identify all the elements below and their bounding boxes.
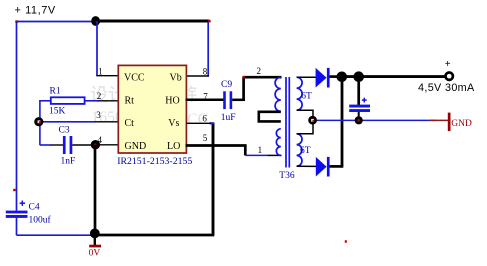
- svg-text:4,5V 30mA: 4,5V 30mA: [418, 82, 475, 94]
- svg-text:Ct: Ct: [125, 118, 135, 129]
- svg-text:5: 5: [203, 133, 208, 143]
- wire riser to pin6: [212, 123, 215, 236]
- svg-text:GND: GND: [451, 119, 472, 129]
- svg-text:钅: 钅: [187, 85, 205, 105]
- label 1uF: [221, 113, 236, 123]
- node cap junction: [353, 71, 364, 82]
- wire pin3 stub black: [94, 121, 119, 123]
- svg-text:2: 2: [257, 66, 262, 76]
- wire supply horizontal blue: [17, 21, 97, 23]
- label IC part number IR2151-2153-2155: [117, 156, 192, 167]
- wire cap drop: [357, 77, 360, 105]
- resistor R1 leads: [40, 100, 51, 145]
- gnd symbol bar: [448, 113, 472, 132]
- label 100uf: [29, 214, 52, 225]
- label T36: [279, 171, 295, 181]
- wire secondary bottom to diode: [297, 165, 317, 167]
- node D junction: [337, 72, 348, 83]
- wire pin7 HO thick: [186, 99, 224, 102]
- IC U1 IR2151 body: [118, 65, 186, 153]
- svg-text:LO: LO: [167, 141, 180, 152]
- svg-text:0V: 0V: [89, 248, 101, 258]
- wire left rail below C4: [16, 218, 18, 235]
- svg-text:100uf: 100uf: [29, 214, 52, 225]
- capacitor C4 plates: [6, 211, 28, 218]
- svg-text:C4: C4: [29, 203, 40, 213]
- wire bottom rail thick: [95, 234, 215, 237]
- stray red speck bottom right: [345, 240, 347, 243]
- svg-text:+ 11,7V: + 11,7V: [15, 5, 56, 17]
- svg-text:1: 1: [258, 145, 263, 155]
- diode D2 bottom: [316, 157, 330, 177]
- diode D1 top: [316, 68, 330, 88]
- wire left rail vertical: [16, 22, 18, 211]
- label 6T top: [301, 92, 312, 102]
- label C9: [221, 80, 232, 90]
- label C4: [29, 203, 40, 213]
- svg-text:Vs: Vs: [168, 118, 179, 129]
- label 6T bottom: [300, 146, 311, 156]
- svg-text:1: 1: [98, 67, 103, 77]
- label output plus: [445, 59, 451, 70]
- svg-text:+: +: [445, 59, 451, 70]
- svg-text:Rt: Rt: [125, 95, 135, 106]
- label +11.7V supply: [15, 5, 56, 17]
- wire pin2 lead blue: [85, 100, 99, 102]
- label C3: [59, 125, 70, 135]
- node red speck on rail: [13, 189, 15, 191]
- svg-text:8: 8: [203, 67, 208, 77]
- wire Vb drop blue: [207, 22, 209, 76]
- node Rt-Ct junction via: [34, 117, 43, 126]
- svg-text:HO: HO: [165, 95, 179, 106]
- wire pin6 stub: [186, 122, 211, 124]
- label 15K: [49, 107, 66, 117]
- label R1: [50, 87, 61, 97]
- ground 0V symbol: [89, 238, 101, 259]
- svg-text:Vb: Vb: [170, 73, 182, 84]
- wire cap to gnd line: [358, 112, 360, 120]
- node 0V junction: [90, 229, 100, 239]
- svg-text:6: 6: [202, 114, 207, 124]
- wire D2 cathode riser: [330, 77, 344, 167]
- svg-text:1nF: 1nF: [61, 157, 76, 167]
- svg-text:R1: R1: [50, 87, 61, 97]
- label 1nF: [61, 157, 76, 167]
- node top rail junction: [91, 16, 100, 26]
- wire pin6 blue corner: [210, 122, 215, 124]
- node red speck riser corner: [242, 76, 244, 78]
- svg-text:T36: T36: [279, 171, 295, 181]
- wire pin5 LO thick: [186, 146, 247, 156]
- resistor R1 body: [51, 97, 85, 104]
- wire C3 right lead: [72, 144, 93, 146]
- wire pin4 stub: [95, 144, 119, 146]
- svg-text:6T: 6T: [300, 146, 311, 156]
- IC pin name VCC: [124, 73, 182, 152]
- wire pin1 stub: [96, 75, 119, 77]
- label output voltage: [418, 82, 475, 94]
- pin numbers left: [96, 67, 208, 145]
- wire secondary top to diode: [297, 76, 317, 78]
- transformer core lines: [286, 77, 289, 168]
- transformer T36 secondary bottom winding: [297, 134, 302, 166]
- svg-text:IR2151-2153-2155: IR2151-2153-2155: [117, 156, 192, 167]
- capacitor C3 plates: [63, 136, 72, 154]
- wire pin8 stub: [186, 75, 209, 77]
- node secondary center tap via: [308, 116, 317, 125]
- node rail end red speck: [208, 20, 211, 23]
- secondary center tap jog: [297, 110, 313, 134]
- transformer T36 primary bottom winding: [276, 129, 280, 156]
- node supply corner red speck: [15, 20, 18, 23]
- wire C3 left lead black: [51, 144, 63, 146]
- transformer primary middle jog: [259, 112, 281, 122]
- wire to xfmr pin1 black: [268, 154, 282, 156]
- svg-text:15K: 15K: [49, 107, 66, 117]
- wire top rail thick: [96, 20, 210, 23]
- svg-text:C3: C3: [59, 125, 70, 135]
- wire gnd line blue: [317, 119, 436, 121]
- wire output plus rail: [342, 75, 446, 78]
- wire gnd line dark end: [430, 119, 448, 121]
- transformer T36 primary top winding: [275, 77, 281, 111]
- wire 0V bottom blue: [17, 234, 94, 236]
- svg-text:GND: GND: [125, 141, 147, 152]
- wire to xfmr pin1 blue: [245, 154, 268, 156]
- svg-text:2: 2: [97, 91, 102, 101]
- capacitor C9 plates: [223, 91, 232, 109]
- watermark row 1: [90, 85, 205, 105]
- capacitor C5 output plates: [349, 105, 370, 112]
- capacitor C4 plus sign: [20, 201, 25, 206]
- svg-text:3: 3: [96, 110, 101, 120]
- transformer T36 secondary top winding: [297, 77, 303, 110]
- wire GND drop to 0V: [94, 145, 97, 234]
- wire pin2 stub black: [99, 100, 119, 102]
- capacitor C5 plus sign: [362, 98, 367, 103]
- node cap-gnd junction via: [355, 116, 363, 124]
- svg-text:6T: 6T: [301, 92, 312, 102]
- svg-text:VCC: VCC: [124, 73, 145, 84]
- wire C9 to xfmr: [232, 77, 281, 101]
- watermark row 2: [91, 109, 208, 128]
- wire C3 left lead blue: [40, 144, 51, 146]
- node GND junction: [91, 140, 100, 149]
- svg-text:4: 4: [98, 135, 103, 145]
- svg-text:1uF: 1uF: [221, 113, 236, 123]
- svg-text:C9: C9: [221, 80, 232, 90]
- label xfmr pin 2: [257, 66, 262, 76]
- wire Vcc drop blue: [96, 21, 98, 75]
- wire Ct horizontal blue: [40, 121, 95, 123]
- label xfmr pin 1: [258, 145, 263, 155]
- output terminal ring: [446, 73, 453, 80]
- wire D1 cathode to junction: [330, 75, 342, 78]
